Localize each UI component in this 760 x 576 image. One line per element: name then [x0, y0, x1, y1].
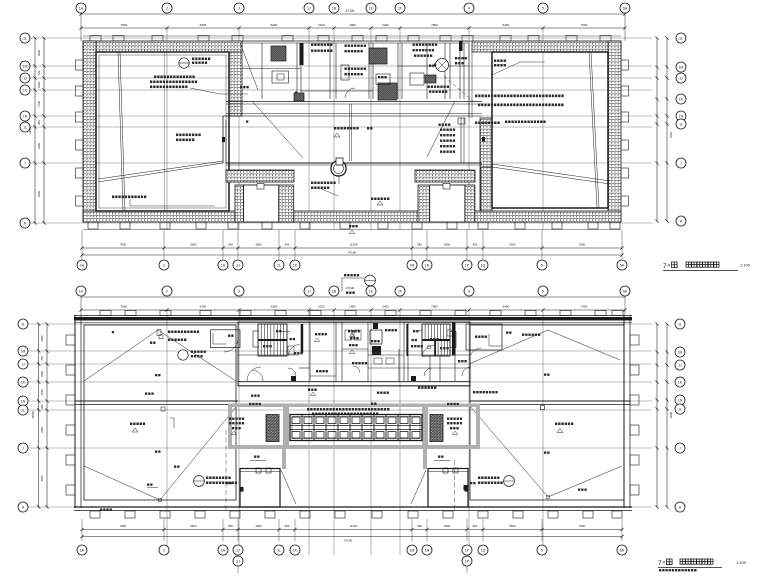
bottom plan - bottom wall [74, 506, 632, 508]
svg-text:1L: 1L [23, 36, 27, 40]
bottom plan - left wing hydrant mark [170, 417, 174, 419]
top plan - courtyard slope line upper [226, 113, 482, 115]
svg-text:2400: 2400 [382, 305, 389, 309]
top plan - hatched wall band top-right [472, 41, 621, 52]
svg-text:1K: 1K [21, 380, 26, 384]
bottom plan - left wing division center square [161, 407, 165, 411]
bottom plan - courtyard diagonals [281, 470, 296, 504]
svg-text:6A: 6A [620, 263, 625, 267]
svg-text:7000: 7000 [581, 305, 588, 309]
top plan - hatched shaft E small [425, 75, 436, 83]
bottom plan - core partitions [309, 322, 311, 381]
bottom plan - left wing division wall [75, 400, 238, 402]
bottom plan - left wing door arc [224, 338, 238, 352]
bottom plan - core door arcs [247, 367, 261, 381]
svg-text:1K: 1K [678, 380, 683, 384]
svg-text:1N: 1N [678, 398, 683, 402]
top plan - small equipment box [272, 71, 289, 83]
svg-text:1L: 1L [277, 263, 281, 267]
svg-text:3900: 3900 [255, 243, 262, 247]
top plan - below-plan vent annotation [349, 225, 351, 227]
svg-text:1J: 1J [236, 263, 240, 267]
top plan - hatched wall right-wing left side [480, 118, 492, 211]
top plan - courtyard slope line lower [226, 115, 482, 117]
svg-text:5500: 5500 [190, 243, 197, 247]
top plan - right wing top corner texts [494, 60, 496, 62]
bottom plan - stair right [422, 324, 450, 356]
bottom plan - secondary bubbles [233, 556, 243, 566]
bottom plan - left wall [74, 315, 76, 508]
bottom plan - canopy gray horizontals [228, 404, 480, 408]
bottom plan - right wing inner border [470, 325, 624, 500]
svg-text:6A: 6A [623, 289, 628, 293]
top plan - row grid lines [30, 37, 652, 39]
bottom plan - left wing texts [168, 331, 170, 334]
bottom plan - parapet stubs top edge [100, 311, 111, 316]
top plan - middle rooms right boundary pair [460, 118, 462, 163]
svg-text:6A: 6A [623, 6, 628, 10]
svg-text:950: 950 [473, 524, 478, 528]
top plan - courtyard diagonal right [427, 101, 455, 157]
svg-text:5: 5 [542, 289, 544, 293]
bottom plan - bottom grid bubbles [77, 545, 87, 555]
svg-text:1Q: 1Q [481, 548, 486, 552]
svg-text:1K: 1K [23, 88, 28, 92]
svg-text:1K: 1K [679, 97, 684, 101]
bottom plan - core wall bar mid [406, 324, 408, 356]
bottom plan - left wing dashed line [225, 430, 227, 512]
svg-text:1E: 1E [369, 6, 374, 10]
bottom plan - left edge stubs [66, 335, 75, 345]
svg-text:1E: 1E [369, 289, 374, 293]
svg-text:5500: 5500 [509, 524, 516, 528]
svg-text:2400: 2400 [382, 23, 389, 27]
svg-text:1N: 1N [679, 114, 684, 118]
bottom plan - right wing dashed line [454, 460, 456, 512]
bottom plan - right wing division [470, 400, 630, 402]
svg-text:1J: 1J [23, 76, 27, 80]
top plan - right wing inner room [492, 52, 608, 208]
svg-text:7800: 7800 [579, 243, 586, 247]
svg-text:1M: 1M [410, 548, 415, 552]
svg-text:1P: 1P [465, 548, 470, 552]
top plan - left grid bubbles [20, 33, 30, 43]
svg-text:1F: 1F [398, 289, 402, 293]
svg-text:1F: 1F [398, 6, 402, 10]
top plan - right wing notes text [475, 95, 477, 98]
svg-text:1J: 1J [21, 362, 25, 366]
svg-text:1600: 1600 [37, 82, 41, 88]
top plan - right wing left wall pair upper [468, 41, 470, 118]
bottom plan - band side labels [229, 418, 231, 420]
top plan - fan symbol circle [436, 59, 449, 72]
top plan - middle rooms outline [242, 40, 468, 42]
top plan - middle room black wall fills [300, 43, 304, 65]
top plan - left wing rain drain callout circle [179, 58, 189, 68]
top plan - corner diagonal [240, 43, 258, 90]
svg-text:1J: 1J [679, 76, 683, 80]
bottom plan - right wing door arc [470, 348, 482, 360]
svg-text:1N: 1N [23, 114, 28, 118]
bottom plan - bottom dimension line 2 [82, 536, 622, 538]
svg-text:1Q: 1Q [481, 263, 486, 267]
svg-text:1K: 1K [293, 548, 298, 552]
bottom plan - left wing callout circle [194, 476, 205, 487]
svg-text:4: 4 [468, 6, 470, 10]
top plan - hatched wall band bottom [83, 211, 621, 222]
bottom plan - right dimension chains [656, 324, 658, 507]
svg-text:1800: 1800 [349, 23, 356, 27]
top plan - right wing top leader [492, 62, 520, 75]
bottom plan - right wing callout circle [504, 476, 515, 487]
bottom plan - hatched block left [266, 415, 279, 442]
svg-text:7800: 7800 [120, 243, 127, 247]
top plan - middle rooms partitions [261, 43, 263, 99]
svg-text:1M: 1M [21, 349, 26, 353]
top plan - left wing roof drain slanted line [118, 52, 123, 211]
svg-text:6400: 6400 [503, 23, 510, 27]
svg-text:950: 950 [228, 243, 233, 247]
top plan - middle room door arc [345, 88, 355, 98]
bottom plan - elevator shafts [373, 323, 378, 329]
inter-plan callout [365, 275, 376, 286]
svg-text:6400: 6400 [503, 305, 510, 309]
top plan - bottom dimension line 1 [82, 247, 622, 249]
top plan - left wing lower annotation [176, 134, 178, 137]
svg-text:1A: 1A [80, 263, 85, 267]
top plan - left wing annotation text block [154, 76, 156, 79]
svg-text:J: J [24, 161, 26, 165]
svg-text:1:100: 1:100 [740, 263, 751, 268]
top plan - top dimension line overall [81, 13, 625, 15]
svg-text:J: J [22, 446, 24, 450]
svg-text:7: 7 [658, 560, 662, 567]
top plan - hatched shaft C [378, 83, 397, 100]
bottom plan - right wing small room [466, 324, 502, 350]
svg-text:1M: 1M [678, 350, 683, 354]
svg-text:1700: 1700 [37, 101, 41, 107]
bottom plan - right edge stubs [630, 335, 639, 345]
svg-text:1600: 1600 [40, 371, 44, 377]
bottom plan - row grid lines [28, 323, 652, 325]
svg-text:2: 2 [166, 6, 168, 10]
svg-text:1J: 1J [236, 559, 240, 563]
svg-text:7800: 7800 [431, 305, 438, 309]
svg-text:1J: 1J [307, 289, 311, 293]
svg-text:47100: 47100 [348, 251, 357, 255]
svg-text:950: 950 [285, 524, 290, 528]
svg-text:6300: 6300 [200, 23, 207, 27]
bottom plan - corridor lines [238, 381, 470, 383]
svg-text:2300: 2300 [40, 427, 44, 433]
svg-text:7800: 7800 [579, 524, 586, 528]
svg-text:3900: 3900 [444, 524, 451, 528]
svg-text:950: 950 [417, 243, 422, 247]
top plan - hatched wall band right [608, 41, 621, 222]
svg-text:1L: 1L [21, 408, 25, 412]
svg-text:5: 5 [541, 548, 543, 552]
svg-text:1A: 1A [79, 6, 84, 10]
svg-text:1L: 1L [277, 548, 281, 552]
svg-text:47100: 47100 [346, 286, 355, 290]
svg-text:1A: 1A [80, 548, 85, 552]
top plan - hatched wall band left [83, 41, 96, 222]
svg-text:1P: 1P [465, 559, 470, 563]
top plan - left wall black node [222, 137, 225, 142]
bottom plan - left wing small corner room [211, 330, 241, 348]
top plan - middle bottom hatch left [226, 170, 294, 182]
svg-text:7000: 7000 [581, 23, 588, 27]
svg-text:3: 3 [238, 289, 240, 293]
svg-text:1N: 1N [425, 263, 430, 267]
svg-text:5500: 5500 [190, 524, 197, 528]
svg-text:900: 900 [40, 404, 44, 409]
top plan - middle room texts [311, 44, 313, 46]
svg-text:5500: 5500 [509, 243, 516, 247]
svg-text:1P: 1P [465, 263, 470, 267]
bottom plan - core texts [276, 330, 278, 332]
svg-text:1B: 1B [332, 289, 337, 293]
bottom plan - core fixtures [288, 346, 294, 354]
top plan - left wing slope lines [98, 161, 223, 179]
svg-text:2900: 2900 [37, 50, 41, 56]
top plan - outer parapet line top [83, 35, 621, 37]
svg-text:1L: 1L [679, 122, 683, 126]
svg-text:2100: 2100 [318, 23, 325, 27]
top plan - left wing inner room [96, 52, 229, 211]
bottom plan - bottom edge stubs [90, 511, 100, 518]
svg-text:1M: 1M [23, 64, 28, 68]
top plan - top grid bubbles [76, 3, 86, 13]
svg-text:950: 950 [285, 243, 290, 247]
svg-text:47100: 47100 [344, 539, 353, 543]
top plan - right wing node [482, 137, 485, 142]
bottom plan - bottom dimension line 1 [82, 529, 622, 531]
svg-text:11200: 11200 [350, 243, 358, 247]
top plan - wall step box [458, 118, 465, 124]
top plan - right dimension chains [656, 38, 658, 221]
top plan - bottom dimension line 2 [82, 254, 622, 256]
bottom plan - right wall [623, 315, 625, 508]
top plan - small percent marks [295, 92, 297, 94]
svg-text:1K: 1K [293, 263, 298, 267]
bottom plan - left door room bottom plan [240, 469, 280, 508]
top plan - hatched shaft A [271, 46, 286, 61]
top plan - right wing drain slanted line [589, 52, 597, 208]
top plan - right door room flank walls [418, 185, 430, 222]
bottom plan - column grid lines [166, 310, 168, 555]
top plan - left wing bottom annotation [112, 196, 114, 199]
svg-text:2100: 2100 [318, 305, 325, 309]
bottom plan - left wing lower room diagonals [84, 466, 160, 500]
svg-text:1:100: 1:100 [736, 560, 747, 565]
svg-text:1L: 1L [23, 125, 27, 129]
bottom plan - right wing lower room diagonals [469, 405, 548, 497]
top plan - middle room tall box [341, 65, 349, 80]
bottom plan - bottom grid leaders [81, 519, 83, 541]
top plan - center room texts [311, 182, 313, 185]
svg-text:2: 2 [166, 289, 168, 293]
top plan - top dimension line segments [81, 27, 625, 29]
top plan - courtyard center texts [334, 127, 336, 130]
top plan - middle room horizontal partitions [242, 68, 301, 70]
bottom plan - right wing upper room diagonals [469, 330, 548, 364]
bottom plan - right wing black node [464, 485, 469, 490]
svg-text:9200: 9200 [669, 412, 673, 418]
svg-text:1J: 1J [307, 6, 311, 10]
svg-text:5250: 5250 [37, 191, 41, 197]
svg-text:47100: 47100 [346, 9, 355, 13]
top plan - left wing grid companion line [164, 52, 166, 211]
svg-text:1L: 1L [21, 322, 25, 326]
svg-text:5900: 5900 [271, 23, 278, 27]
svg-text:6300: 6300 [200, 305, 207, 309]
top plan - left middle annotation [240, 86, 242, 88]
bottom plan - middle core outline [238, 322, 470, 386]
top plan - middle bottom block top wall [226, 162, 482, 164]
top plan - vent riser pipes [349, 104, 351, 161]
bottom plan - right grid bubbles [675, 319, 685, 329]
svg-text:7800: 7800 [120, 524, 127, 528]
top plan - vent drop line [338, 176, 340, 184]
svg-text:950: 950 [228, 524, 233, 528]
bottom plan - core wall bar left [301, 324, 304, 353]
bottom plan - top grid bubbles [76, 286, 86, 296]
top plan - right door room [430, 185, 465, 222]
bottom plan - right wing texts [473, 391, 475, 393]
svg-text:3900: 3900 [444, 243, 451, 247]
top plan - left door room [244, 185, 279, 222]
bottom plan - top edge heavy band [74, 315, 632, 317]
bottom plan - left wing inner border [84, 325, 236, 500]
svg-text:750: 750 [37, 70, 41, 75]
bottom plan - core wall bar right [452, 323, 456, 356]
top plan - left wing annotation leader [190, 88, 220, 94]
svg-text:J: J [680, 161, 682, 165]
svg-text:16500: 16500 [31, 411, 35, 419]
top plan - middle bottom hatch right [415, 170, 475, 182]
svg-text:2: 2 [163, 548, 165, 552]
top plan - right wing slope lines [492, 164, 610, 181]
top plan - hatched shaft D small [294, 93, 304, 101]
svg-text:950: 950 [473, 243, 478, 247]
svg-text:1800: 1800 [349, 305, 356, 309]
svg-text:9750: 9750 [669, 132, 673, 138]
svg-text:3900: 3900 [255, 524, 262, 528]
bottom plan - top dimension line [81, 296, 625, 298]
svg-text:2900: 2900 [40, 335, 44, 341]
svg-text:5: 5 [541, 263, 543, 267]
bottom plan - stair left [258, 324, 287, 356]
svg-text:7800: 7800 [121, 305, 128, 309]
bottom plan - canopy gray verticals [283, 406, 289, 446]
svg-text:4: 4 [468, 289, 470, 293]
top plan - framed label box [376, 74, 390, 85]
bottom plan - corridor texts [308, 389, 310, 391]
top plan - left door room flank walls [235, 185, 244, 222]
svg-text:1N: 1N [425, 548, 430, 552]
bottom plan - hatched block right [430, 415, 443, 442]
svg-text:2: 2 [163, 263, 165, 267]
svg-text:5250: 5250 [40, 475, 44, 481]
svg-text:1H: 1H [221, 263, 226, 267]
bottom plan - equipment strip [290, 415, 422, 441]
bottom plan - right wing upper text [522, 334, 524, 336]
svg-text:7: 7 [663, 263, 667, 270]
top plan - white box right [410, 73, 424, 85]
top plan - left wing wall step [223, 115, 242, 117]
svg-text:5900: 5900 [271, 305, 278, 309]
svg-text:5: 5 [542, 6, 544, 10]
svg-text:1M: 1M [679, 65, 684, 69]
svg-text:11200: 11200 [350, 524, 358, 528]
top plan - bottom grid leaders [81, 230, 83, 259]
svg-text:900: 900 [37, 120, 41, 125]
svg-text:J: J [679, 446, 681, 450]
top plan - bottom grid bubbles [77, 260, 87, 270]
svg-text:1B: 1B [332, 6, 337, 10]
svg-text:1A: 1A [79, 289, 84, 293]
svg-text:1N: 1N [21, 399, 26, 403]
svg-text:1L: 1L [679, 36, 683, 40]
bottom plan - equipment texts [307, 408, 309, 411]
top plan - parapet stubs right edge [621, 60, 629, 70]
top plan - parapet stubs top edge [90, 36, 101, 42]
svg-text:750: 750 [40, 356, 44, 361]
top plan - parapet stubs bottom edge [88, 222, 98, 229]
top plan - hatched wall band top-left [83, 41, 242, 52]
svg-text:1H: 1H [221, 548, 226, 552]
bottom plan - canopy connectors [282, 448, 286, 469]
bottom plan - left wing upper room diagonals [84, 330, 158, 381]
bottom plan - left dimension chains [38, 324, 40, 507]
svg-text:1J: 1J [236, 548, 240, 552]
bottom plan - left grid bubbles [18, 319, 28, 329]
svg-text:1M: 1M [410, 263, 415, 267]
svg-text:1J: 1J [678, 363, 682, 367]
svg-text:7800: 7800 [121, 23, 128, 27]
top plan - outer parapet line bottom [83, 229, 621, 231]
svg-text:2300: 2300 [37, 143, 41, 149]
top plan - hatched shaft B [369, 48, 387, 64]
top plan - hatched wall left-wing right side upper [229, 52, 242, 116]
svg-text:6A: 6A [620, 548, 625, 552]
top plan - column grid lines [166, 28, 168, 230]
svg-text:1L: 1L [678, 322, 682, 326]
top plan - parapet stubs left edge [76, 60, 84, 70]
top plan - courtyard diagonal left [252, 101, 303, 158]
top plan - middle rooms right end labels [455, 57, 457, 59]
svg-text:1L: 1L [678, 407, 682, 411]
bottom plan - percent marks [254, 456, 256, 458]
top plan - dash-dot axis line [444, 76, 474, 102]
top plan - vent pipe object [331, 161, 346, 176]
svg-text:7800: 7800 [431, 23, 438, 27]
bottom plan - left wing mid callout circle [178, 350, 188, 360]
svg-text:1700: 1700 [40, 389, 44, 395]
svg-text:950: 950 [417, 524, 422, 528]
svg-text:3: 3 [238, 6, 240, 10]
top plan - right grid bubbles [676, 33, 686, 43]
top plan - left dimension chains [34, 38, 36, 223]
bottom plan - right door room bottom plan [428, 469, 468, 508]
